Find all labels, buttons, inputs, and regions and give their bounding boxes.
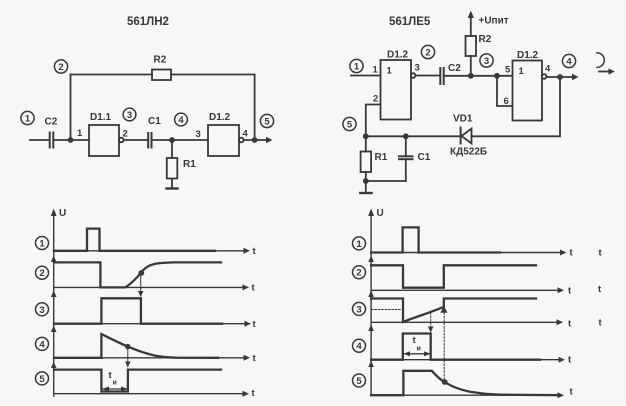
svg-text:2: 2 [58, 62, 63, 73]
svg-text:2: 2 [356, 268, 361, 279]
junction [169, 137, 175, 143]
wire [366, 135, 461, 137]
svg-text:3: 3 [356, 304, 361, 315]
svg-text:и: и [113, 380, 117, 387]
node 3 (right) [480, 54, 493, 67]
svg-text:3: 3 [196, 129, 201, 140]
axis t row3 left [54, 319, 257, 330]
axis t row5 right [371, 387, 573, 399]
svg-text:и: и [417, 346, 421, 353]
resistor R2 (right) [466, 34, 492, 56]
power +Upit [468, 11, 509, 37]
svg-text:C2: C2 [45, 117, 58, 128]
node 3 [123, 108, 136, 121]
svg-text:1: 1 [25, 114, 31, 125]
svg-text:5: 5 [356, 376, 362, 387]
svg-text:D1.1: D1.1 [90, 112, 112, 123]
waveform row3 left: pulse [54, 298, 222, 323]
waveform row1 right: input pulse [371, 227, 500, 252]
axis t row2 right [371, 284, 602, 296]
waveform row3 right [371, 299, 536, 323]
svg-text:4: 4 [39, 339, 45, 350]
svg-text:R2: R2 [479, 34, 492, 45]
capacitor C2 (right) [440, 63, 461, 84]
svg-text:5: 5 [347, 120, 353, 131]
wire [171, 74, 255, 76]
svg-text:C1: C1 [148, 116, 161, 127]
axis t row2 left [54, 283, 256, 294]
node 5 (right) [343, 117, 356, 130]
svg-text:U: U [59, 208, 66, 219]
node 2 [54, 60, 67, 73]
svg-text:R1: R1 [375, 152, 388, 163]
marker triangle row3 right [440, 306, 447, 313]
svg-text:3: 3 [415, 63, 420, 74]
svg-text:2: 2 [123, 129, 128, 140]
wire [416, 75, 440, 77]
svg-text:R1: R1 [183, 159, 196, 170]
svg-text:1: 1 [373, 65, 379, 76]
label t_i right [413, 335, 421, 353]
artifact arrow [599, 68, 615, 74]
junction [68, 137, 74, 143]
svg-text:4: 4 [545, 64, 551, 75]
junction [252, 137, 258, 143]
svg-text:VD1: VD1 [453, 114, 473, 125]
wire [70, 75, 72, 141]
inverter D1.1 [89, 112, 124, 156]
marker dot row4 left [125, 344, 130, 349]
axis U right [368, 208, 384, 395]
svg-text:2: 2 [373, 94, 378, 105]
junction [557, 74, 563, 80]
wire [124, 139, 148, 141]
label t_i left [109, 370, 117, 387]
junction [494, 73, 500, 79]
wire [71, 74, 153, 76]
wire [351, 75, 381, 77]
artifact arc [597, 53, 604, 68]
svg-text:1: 1 [387, 66, 393, 77]
svg-text:+Uпит: +Uпит [479, 16, 509, 27]
wire pin2 [366, 105, 381, 137]
node label 2 [36, 266, 49, 279]
svg-text:1: 1 [519, 66, 525, 77]
svg-text:3: 3 [39, 305, 44, 316]
marker arrow row4->row5 [125, 350, 130, 368]
node label 5 [36, 372, 49, 385]
wire [366, 172, 406, 181]
svg-text:3: 3 [484, 56, 489, 67]
node 4 [175, 113, 188, 126]
dotted marker line row3->row5 right [443, 313, 445, 379]
ground [167, 187, 178, 189]
svg-text:4: 4 [178, 115, 184, 126]
axis t row3 right [371, 318, 602, 330]
axis t row1 left [54, 246, 257, 257]
marker dot row2 left [138, 270, 144, 276]
node label 2 right [353, 266, 366, 279]
resistor R2 [152, 55, 171, 81]
axis t row1 right [371, 248, 602, 259]
resistor R1 (right) [361, 136, 388, 172]
svg-text:2: 2 [425, 48, 430, 59]
svg-text:2: 2 [39, 268, 44, 279]
threshold dotted row3 right [372, 309, 402, 311]
capacitor C2 [45, 117, 58, 148]
capacitor C1 [148, 116, 161, 148]
marker dot row5 right [442, 379, 448, 385]
svg-text:5: 5 [505, 65, 511, 76]
svg-text:4: 4 [566, 57, 572, 68]
svg-text:D1.2: D1.2 [387, 50, 409, 61]
svg-text:C1: C1 [418, 152, 431, 163]
waveform row2 left [54, 262, 221, 287]
node label 5 right [353, 374, 366, 387]
wire feedback [472, 77, 561, 136]
waveform row2 right: notch [371, 265, 536, 287]
axis t row4 left [54, 353, 257, 364]
wire [445, 75, 513, 77]
node label 3 [36, 303, 49, 316]
waveform row5 left: notch [54, 370, 221, 392]
NOR gate U1b D1.2 [513, 50, 547, 121]
wire [171, 140, 173, 158]
node 1 (right) [350, 59, 363, 72]
svg-text:R2: R2 [154, 55, 167, 66]
waveform row4 right: pulse [371, 334, 540, 360]
resistor R1 [167, 158, 196, 179]
capacitor C1 (right) [399, 136, 431, 181]
wire pin6 loop [497, 76, 513, 106]
svg-text:3: 3 [127, 110, 132, 121]
junction [403, 133, 409, 139]
svg-text:6: 6 [504, 96, 509, 107]
wire [254, 75, 256, 141]
svg-text:1: 1 [77, 128, 83, 139]
dimension arrows t_i left [102, 387, 128, 392]
dimension arrows t_i right [404, 351, 431, 356]
svg-text:5: 5 [39, 374, 45, 385]
inverter D1.2 [208, 112, 244, 156]
svg-text:КД522Б: КД522Б [450, 147, 487, 158]
wire [153, 139, 208, 141]
axis t row5 left [54, 388, 256, 399]
node label 4 [36, 337, 49, 350]
node label 1 [36, 237, 49, 250]
node label 3 right [353, 302, 366, 315]
marker arrow row2->row3 [138, 276, 143, 298]
svg-text:561ЛЕ5: 561ЛЕ5 [389, 16, 431, 28]
ground (right) [360, 181, 371, 193]
diode VD1 [450, 114, 487, 158]
wire [55, 139, 89, 141]
axis t row4 right [371, 355, 572, 366]
wire [547, 74, 579, 80]
node 2 (right) [421, 45, 434, 58]
NOR gate U1a D1.2 [381, 50, 416, 120]
svg-text:4: 4 [243, 129, 249, 140]
svg-text:5: 5 [264, 117, 270, 128]
junction [363, 133, 369, 139]
svg-text:561ЛН2: 561ЛН2 [127, 16, 169, 28]
node label 1 right [353, 237, 366, 250]
wire [171, 179, 173, 189]
svg-text:D1.2: D1.2 [517, 50, 539, 61]
wire [470, 56, 472, 76]
svg-text:U: U [377, 208, 384, 219]
node 5 [260, 114, 273, 127]
node 4 (right) [562, 54, 575, 67]
wire [244, 137, 273, 143]
svg-text:1: 1 [354, 62, 360, 73]
waveform row5 right: decay [371, 371, 560, 395]
dotted marker line row3->row4 right [428, 313, 433, 333]
wire [30, 139, 48, 141]
junction [468, 73, 474, 79]
node label 4 right [353, 339, 366, 352]
node 1 [21, 111, 34, 124]
junction [363, 178, 369, 184]
axis U left [51, 208, 66, 396]
svg-text:1: 1 [356, 239, 362, 250]
waveform row1 left: input pulse [54, 229, 215, 251]
svg-text:4: 4 [356, 341, 362, 352]
svg-text:1: 1 [39, 239, 45, 250]
svg-text:D1.2: D1.2 [209, 112, 231, 123]
waveform row4 left: decay [54, 334, 218, 358]
svg-text:C2: C2 [448, 63, 461, 74]
